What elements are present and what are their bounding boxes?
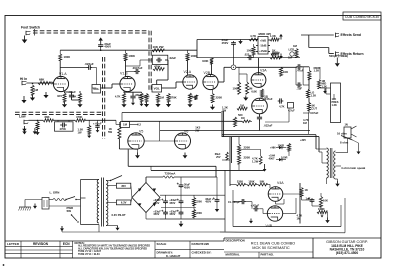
svg-text:MCK 50 SCHEMATIC: MCK 50 SCHEMATIC [252, 246, 290, 250]
pot VR3 [279, 103, 295, 113]
ground (R10) [155, 102, 160, 107]
label treble cap [329, 54, 348, 58]
wire (dashed bus vertical x103) [103, 57, 105, 139]
triode V3B [252, 95, 269, 114]
switch S1 [65, 197, 76, 201]
wire (trans bottom) [62, 225, 220, 233]
svg-text:-15dB: -15dB [260, 45, 267, 48]
ground (R11) [144, 102, 149, 107]
capacitor C5 .02uF (boxed) [152, 55, 176, 64]
label 8 ohm [340, 141, 349, 145]
resistor R27 6.8K (V3A cathode) [251, 89, 263, 97]
AC plug P1 [42, 198, 49, 210]
effects send jack J4 [336, 33, 340, 38]
resistor R47 1M [241, 116, 252, 123]
svg-text:L. GRN: L. GRN [50, 191, 60, 195]
svg-text:450V: 450V [153, 212, 159, 216]
wire (footswitch shield dashed bus horizontal) [33, 31, 149, 33]
wire (V3B right y122) [265, 109, 289, 123]
label Effects Return [341, 52, 364, 56]
grid node circle [51, 82, 53, 84]
node (33uF tap) [100, 49, 102, 51]
resistor R13 100K (plate) [186, 53, 197, 61]
wire (dashed bus horizontal y113) [15, 112, 103, 114]
pot VR10 bias [252, 156, 262, 164]
svg-text:2W: 2W [222, 109, 227, 113]
svg-text:CL 680pF: CL 680pF [228, 200, 240, 204]
wire (PI right net) [300, 193, 328, 218]
svg-text:10K: 10K [283, 70, 288, 74]
resistor R19 820 [270, 52, 281, 59]
capacitor C11 33uF/450V [222, 38, 236, 65]
svg-text:100K: 100K [202, 59, 208, 63]
svg-text:450V: 450V [169, 201, 175, 205]
label L.GRN [50, 191, 60, 195]
svg-text:2W: 2W [195, 129, 199, 133]
wire (R37 top) [238, 137, 240, 170]
resistor R1 1M [31, 85, 39, 95]
svg-text:1.2K: 1.2K [311, 93, 317, 97]
svg-text:V6: V6 [184, 129, 188, 133]
svg-text:(615) 871-4500: (615) 871-4500 [336, 251, 359, 255]
triode V1.B [120, 72, 135, 92]
svg-text:V3A: V3A [260, 69, 267, 73]
switch S1b [71, 214, 79, 222]
wire (V4 wiring) [233, 190, 284, 227]
label bias2 [281, 156, 287, 160]
svg-text:ALL CAPACITORS 63V, 10% TOLERA: ALL CAPACITORS 63V, 10% TOLERANCE UNLESS… [78, 247, 147, 250]
resistor R21 4.7K [249, 34, 258, 41]
wire (cut bottom) [303, 112, 309, 114]
capacitor C16 .47uF [251, 204, 260, 212]
svg-text:100K: 100K [248, 180, 254, 184]
capacitor C20 33uF 450V [153, 198, 168, 205]
svg-text:V4B: V4B [266, 224, 273, 228]
ground (effects return) [335, 58, 340, 67]
ground (PI right) [325, 218, 329, 224]
wire (x316 down to OT) [316, 135, 319, 152]
power arrow +V (U1) [279, 34, 283, 40]
svg-text:1M: 1M [34, 88, 39, 92]
switch (speaker 16/8 ohm) [341, 136, 353, 141]
ground (V1A grid leak) [43, 92, 48, 98]
resistor R4 1.5K (cathode) [57, 93, 66, 102]
svg-text:T250mA: T250mA [165, 172, 176, 176]
svg-text:.0047uF: .0047uF [132, 66, 143, 70]
bridge rectifier BR1 [132, 183, 160, 213]
resistor R5 1.5K [71, 93, 82, 102]
wire (V1B plate) [125, 50, 127, 76]
label 5K [303, 118, 309, 125]
resistor R41b 56K [258, 180, 267, 186]
LED D5 [289, 48, 295, 57]
svg-text:68K: 68K [39, 77, 45, 81]
wire (OT right) [336, 179, 338, 181]
wire (bias net) [239, 150, 289, 157]
svg-text:220K: 220K [244, 156, 251, 160]
wire (bridge top) [146, 177, 163, 183]
company box [313, 238, 368, 258]
triode V1.A [53, 72, 68, 91]
ground (V5 cathode) [135, 153, 140, 159]
capacitor C10 33uF/450V [98, 37, 111, 50]
ground (R8b) [140, 102, 144, 106]
pot VR4 MID [317, 79, 327, 89]
label .047uF [310, 111, 319, 115]
ground (V1B cathode) [121, 102, 126, 107]
title box CUB COMBO MCK30 (top right) [343, 12, 381, 20]
wire (send line) [301, 35, 334, 54]
wire (opamp feed y39.5) [197, 40, 258, 58]
svg-text:LED: LED [289, 48, 295, 52]
wire (V3A plate rail) [196, 58, 300, 73]
resistor R9 470K [153, 64, 164, 70]
wire (V1A plate up) [60, 61, 87, 77]
wire (low to cap) [85, 120, 98, 125]
svg-text:4007: 4007 [269, 157, 275, 161]
svg-text:ECN: ECN [63, 242, 70, 246]
resistor R3 100K (plate) [59, 50, 70, 60]
wire (low ch) [29, 120, 44, 122]
ground (R17) [243, 96, 248, 101]
winding box 1 [116, 183, 130, 188]
svg-text:+5dB: +5dB [260, 39, 266, 42]
switch S2 (voltage sel) [106, 176, 122, 182]
wire (OT connects) [316, 149, 327, 184]
ground (filter) [179, 221, 184, 227]
resistor R33 1K 5W [108, 122, 121, 139]
wire (mains) [25, 200, 81, 207]
svg-text:220K: 220K [244, 146, 251, 150]
ground (OT bottom) [335, 181, 339, 187]
svg-text:MATERIAL: MATERIAL [226, 252, 241, 256]
label PWR SWITCH [67, 206, 74, 213]
resistor R17 100K [233, 82, 241, 94]
svg-text:25V: 25V [216, 156, 221, 159]
label 16 ohm [337, 132, 347, 136]
label Effects Send [341, 33, 361, 37]
diode D6 1N4007 [269, 154, 287, 162]
svg-text:220K: 220K [196, 212, 202, 215]
resistor R29 2.2K [233, 117, 236, 127]
svg-text:+325: +325 [300, 138, 306, 142]
svg-text:6.3V: 6.3V [121, 201, 127, 205]
svg-text:SW: SW [67, 209, 72, 213]
triode V2.A [183, 70, 197, 89]
svg-text:1M: 1M [241, 116, 245, 120]
svg-text:V5: V5 [139, 129, 143, 133]
wire (gnd rail right) [220, 198, 345, 233]
svg-text:1M: 1M [123, 123, 128, 127]
resistor R15 100K (plate) [202, 58, 213, 64]
svg-text:.47uF: .47uF [297, 69, 304, 73]
resistor R31 [194, 95, 197, 100]
svg-text:1M: 1M [240, 104, 245, 108]
wire (sec taps) [336, 141, 348, 166]
ground (J1) [21, 96, 26, 103]
foot switch jack J3 [26, 31, 31, 35]
svg-text:1W: 1W [78, 131, 82, 135]
pot VR6 CUT [307, 103, 317, 111]
svg-text:4.7K: 4.7K [115, 95, 121, 99]
svg-text:450V: 450V [169, 212, 175, 216]
power tube V5 [128, 129, 144, 149]
wire (dashed bus vertical x150) [149, 31, 151, 91]
svg-text:LETTER: LETTER [7, 242, 20, 246]
capacitor C21 33uF 450V [153, 209, 168, 216]
resistor R8 680R [140, 93, 150, 102]
svg-text:1.2K: 1.2K [332, 103, 338, 107]
ground (R1) [30, 95, 35, 101]
wire (PI input) [222, 159, 230, 161]
svg-text:.022uF: .022uF [85, 62, 94, 66]
wire (signal y130.5) [160, 130, 310, 132]
svg-text:DESCRIPTION: DESCRIPTION [226, 238, 245, 242]
label 4 ohm twin speak [341, 166, 366, 170]
foot switch label [21, 26, 40, 30]
capacitor C25 .68uF [215, 152, 229, 160]
low input jack J2 [19, 115, 29, 125]
pot box VR9 1M [121, 122, 130, 128]
svg-text:.02uF: .02uF [169, 56, 177, 60]
resistor R39 100R [278, 144, 291, 152]
svg-text:500pF (TREB): 500pF (TREB) [329, 54, 348, 58]
svg-text:68K: 68K [138, 96, 143, 100]
svg-text:1K5: 1K5 [57, 94, 62, 98]
capacitor C18 1uF [306, 196, 315, 203]
svg-text:1.0K: 1.0K [270, 34, 276, 38]
svg-text:470K: 470K [76, 115, 82, 119]
resistor R12 470K [167, 94, 177, 103]
wire (V2B plate) [211, 64, 213, 74]
capacitor C23 33uF 450V [169, 209, 183, 216]
svg-text:SCALE: SCALE [157, 242, 167, 246]
label 1M [288, 55, 293, 59]
wire (b+ up right) [128, 150, 264, 178]
capacitor C3 .0047uF [126, 66, 143, 74]
resistor R44 100R [317, 207, 327, 214]
triode V3A [251, 69, 267, 88]
resistor R40 220K [236, 180, 245, 186]
svg-text:820: 820 [271, 52, 276, 56]
wire (ch2 y121.3) [122, 120, 242, 122]
wire (V6 grid feed) [159, 121, 161, 141]
resistor R26 10K [279, 67, 288, 76]
svg-text:4.7K: 4.7K [250, 34, 257, 38]
wire (filter rows) [160, 188, 225, 219]
svg-text:ALL RESISTORS 1/4 WATT, 5% TOL: ALL RESISTORS 1/4 WATT, 5% TOLERANCE UNL… [78, 245, 150, 248]
svg-text:56K: 56K [260, 180, 265, 184]
wire (B+ rail y51) [60, 49, 197, 51]
capacitor C22 33uF 450V [169, 198, 183, 205]
svg-text:470K: 470K [60, 127, 66, 131]
label 1.2K 2W [222, 106, 228, 113]
capacitor C14 boxed [55, 122, 74, 131]
resistor R18 1M [245, 82, 253, 94]
wire (x230 vert) [230, 137, 232, 186]
wire (to vol pot) [92, 87, 96, 89]
wire (V1B plate to C5) [126, 60, 153, 66]
svg-text:+15dB: +15dB [259, 50, 267, 53]
ground (V1A cathode) [62, 102, 67, 107]
ground (c24 arrow) [215, 203, 219, 212]
svg-text:16 ohm: 16 ohm [337, 132, 347, 136]
svg-text:100K: 100K [128, 54, 135, 58]
ground (under T1) [116, 226, 120, 231]
power transformer T1 secondary [106, 181, 108, 226]
wire (sec to bridge) [107, 186, 132, 203]
wire (mix rail y67) [236, 66, 296, 68]
capacitor C2 .022uF (coupling) [85, 62, 97, 85]
wire (PI right vertical) [283, 183, 300, 224]
effects return jack J5 [336, 51, 340, 56]
capacitor C7 .0022uF [262, 97, 283, 104]
svg-text:PART NO.: PART NO. [261, 252, 274, 256]
wire (PI row) [230, 185, 270, 189]
ground (R35) [35, 130, 39, 136]
ground (V2B cathode) [210, 105, 215, 110]
capacitor C12 .47uF [296, 64, 304, 72]
ground (foot switch) [22, 29, 35, 43]
svg-text:.022uF: .022uF [264, 124, 273, 128]
svg-text:10K 2W: 10K 2W [153, 45, 164, 49]
resistor R24 100K [247, 44, 256, 58]
svg-text:7/21/95: 7/21/95 [199, 242, 209, 246]
svg-text:K. HAIGHT: K. HAIGHT [166, 254, 181, 258]
resistor R16 220K [211, 90, 222, 103]
op-amp U1 MOD325 [256, 32, 271, 54]
pot VR2 VOL [152, 85, 162, 93]
wire (R5) [72, 91, 81, 100]
svg-text:100R: 100R [278, 144, 284, 148]
resistor R25 1M [293, 44, 298, 58]
node lamp symbol [231, 65, 236, 70]
fuse F1 [53, 198, 66, 200]
label 560 [238, 113, 243, 117]
wiper arrow (R44) [321, 213, 324, 218]
svg-text:1M: 1M [288, 55, 293, 59]
resistor R14 8.2K (cathode) [188, 93, 197, 102]
capacitor C4 .68uF [130, 93, 142, 100]
ground (V2A cathode) [187, 102, 192, 107]
svg-text:Hi In: Hi In [20, 77, 27, 81]
svg-text:.022: .022 [244, 52, 250, 56]
stray scan mark [3, 264, 5, 266]
wire (V2B out) [218, 67, 231, 82]
capacitor C6 .022uF [244, 52, 253, 60]
fuse F2 T250mA [163, 172, 175, 179]
svg-text:V1.B: V1.B [120, 72, 128, 76]
wire (vol to V1B grid) [101, 84, 120, 88]
triode V4B [266, 206, 283, 228]
transformer core [330, 148, 332, 178]
svg-text:220K: 220K [237, 180, 243, 184]
svg-text:220K: 220K [216, 96, 223, 100]
svg-text:68K: 68K [45, 115, 50, 119]
svg-text:450V: 450V [222, 41, 229, 45]
capacitor C1 .68uF [69, 90, 77, 99]
resistor R7 4.7K (cathode) [115, 93, 126, 102]
arrow (sec) [353, 140, 361, 154]
ground (R8) [131, 101, 135, 105]
resistor R35 1M [36, 122, 39, 130]
svg-text:1.2W: 1.2W [252, 159, 259, 163]
svg-text:VOL: VOL [154, 86, 160, 90]
capacitor C15 680pF [228, 199, 246, 204]
wire (tone verticals) [303, 67, 334, 113]
wire (c24) [216, 177, 218, 198]
wire (tone out box) [320, 88, 331, 94]
wire (R17R18 top) [239, 67, 247, 82]
wiper arrow (mid) [323, 89, 327, 94]
wire (pp line A) [222, 134, 316, 136]
output transformer T2 primary [327, 148, 329, 178]
winding box 2 [116, 200, 130, 205]
svg-text:470K: 470K [170, 96, 177, 100]
svg-text:1N: 1N [345, 123, 348, 127]
svg-text:V2B: V2B [204, 71, 211, 75]
svg-text:CUB COMBO MCK30: CUB COMBO MCK30 [345, 15, 379, 19]
svg-text:.047uF: .047uF [310, 111, 319, 115]
svg-text:CHECKED BY:: CHECKED BY: [192, 250, 212, 254]
wire (box edge x222) [222, 111, 224, 137]
output transformer T2 secondary [334, 151, 336, 179]
pot VR5 LO [306, 90, 316, 98]
svg-text:V4A: V4A [277, 181, 284, 185]
resistor R43 10K [319, 197, 328, 208]
capacitor C8 .022uF [257, 115, 273, 127]
svg-text:5W: 5W [108, 130, 112, 134]
svg-text:4.7K: 4.7K [279, 105, 285, 109]
wire (low ch 2) [98, 120, 139, 124]
ground (R12) [166, 102, 171, 107]
resistor R36 470K [75, 115, 85, 122]
svg-text:470K: 470K [154, 64, 161, 68]
ground (low in arrows b) [33, 128, 37, 134]
resistor R22 1K [270, 34, 279, 41]
chassis ground [19, 205, 32, 211]
svg-text:100R: 100R [281, 156, 287, 160]
wire (b+ node) [146, 177, 217, 219]
resistor R11 68K [138, 94, 148, 103]
ground (V4B) [249, 219, 253, 224]
svg-text:1M: 1M [160, 96, 165, 100]
svg-text:4 ohm twin speak: 4 ohm twin speak [341, 166, 366, 170]
svg-text:1M: 1M [293, 44, 298, 48]
wire (C5 to VR2) [157, 60, 168, 85]
wire (tone in) [296, 67, 309, 85]
wire (V3B cath) [259, 114, 261, 131]
capacitor C14b .68uF [93, 121, 102, 128]
svg-text:V.2: V.2 [137, 123, 141, 127]
capacitor C24 33uF [205, 197, 219, 204]
notes text [75, 241, 151, 256]
ground (low in arrows a) [22, 128, 26, 134]
svg-text:CUT: CUT [312, 106, 318, 110]
svg-text:+.68uF: +.68uF [93, 121, 102, 125]
label r31 [188, 95, 192, 99]
svg-text:1.2K: 1.2K [314, 69, 320, 73]
resistor R34 68K [43, 115, 53, 122]
wire (T1 primary loop) [81, 180, 100, 225]
transformer T1 core [102, 178, 104, 227]
svg-text:1K: 1K [305, 188, 308, 192]
svg-text:Effects Send: Effects Send [341, 33, 361, 37]
svg-text:1.5K: 1.5K [71, 95, 77, 99]
svg-text:100K: 100K [191, 54, 198, 58]
scale/date boxes [155, 241, 224, 258]
svg-text:REVISION: REVISION [33, 242, 49, 246]
